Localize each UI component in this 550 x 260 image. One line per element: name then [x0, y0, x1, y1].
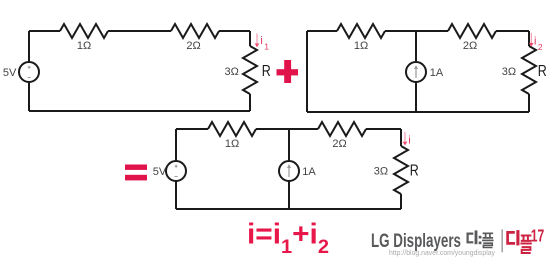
wire circuit1 right lower [249, 94, 251, 111]
resistor R 3ohm circuit1 [243, 46, 257, 94]
logo dipeul17 red hangul peul [520, 236, 531, 254]
I1 arrow inside [414, 65, 418, 78]
resistor 1ohm circuit3 [208, 122, 256, 136]
svg-text:2Ω: 2Ω [463, 40, 477, 52]
wire circuit1 top-right segment [219, 30, 250, 32]
wire circuit3 bottom [176, 208, 401, 210]
svg-text:2Ω: 2Ω [332, 138, 346, 150]
current source I1 1A circuit2 [406, 62, 426, 82]
I2 arrow inside [287, 164, 291, 177]
wire circuit2 left [306, 31, 308, 112]
svg-text:3Ω: 3Ω [224, 66, 238, 78]
wire circuit3 right upper [400, 129, 402, 146]
voltage source V1 5V circuit1 [19, 62, 39, 82]
wire circuit1 left lower [28, 82, 30, 111]
logo separator bar [502, 229, 503, 252]
wire circuit3 top seg c [366, 128, 401, 130]
resistor 2ohm circuit1 [171, 24, 219, 38]
resistor R 3ohm circuit3 [394, 146, 408, 194]
svg-text:2Ω: 2Ω [186, 40, 200, 52]
logo colon gray [479, 236, 482, 244]
svg-text:3Ω: 3Ω [374, 166, 388, 178]
resistor 1ohm circuit1 [60, 24, 108, 38]
wire circuit1 top-left segment [29, 30, 60, 32]
wire circuit1 top-mid segment [108, 30, 171, 32]
wire circuit2 right upper [528, 31, 530, 46]
svg-text:1Ω: 1Ω [77, 40, 91, 52]
wire circuit1 bottom [29, 110, 250, 112]
current source I2 1A circuit3 [279, 161, 299, 181]
voltage source V2 5V circuit3 [166, 161, 186, 181]
svg-text:R: R [262, 63, 271, 80]
svg-text:i=i1+i2: i=i1+i2 [247, 219, 329, 259]
resistor 1ohm circuit2 [337, 24, 385, 38]
resistor R 3ohm circuit2 [522, 46, 536, 94]
wire circuit3 top seg a [176, 128, 208, 130]
wire circuit2 middle upper [415, 31, 417, 62]
wire circuit2 bottom [307, 111, 529, 113]
resistor 2ohm circuit2 [448, 24, 496, 38]
equals symbol red [125, 165, 147, 181]
current arrow i circuit3 [403, 132, 408, 146]
logo hangul peul gray [482, 233, 494, 247]
svg-text:R: R [410, 163, 419, 180]
V2 polarity marks [175, 165, 178, 177]
wire circuit3 middle lower [288, 181, 290, 209]
wire circuit3 left lower [175, 181, 177, 209]
wire circuit2 top seg c [496, 30, 529, 32]
wire circuit3 top seg b [256, 128, 318, 130]
svg-text:i: i [408, 135, 410, 147]
wire circuit2 middle lower [415, 82, 417, 112]
svg-text:5V: 5V [3, 67, 17, 79]
wire circuit2 top seg a [307, 30, 337, 32]
logo dipeul17 red hangul di [508, 230, 518, 245]
wire circuit2 top seg b [385, 30, 448, 32]
wire circuit1 left upper [28, 31, 30, 62]
svg-text:2: 2 [538, 42, 543, 52]
wire circuit2 right lower [528, 94, 530, 112]
svg-text:17: 17 [531, 226, 545, 246]
svg-text:1A: 1A [430, 67, 444, 79]
wire circuit1 right upper [249, 31, 251, 46]
V1 polarity marks [28, 66, 31, 78]
svg-text:i: i [534, 35, 536, 47]
svg-text:1Ω: 1Ω [354, 40, 368, 52]
wire circuit3 right lower [400, 194, 402, 209]
svg-text:http://blog.naver.com/youngdis: http://blog.naver.com/youngdisplay [389, 248, 495, 257]
wire circuit3 left upper [175, 129, 177, 161]
svg-text:1A: 1A [302, 166, 316, 178]
svg-text:1: 1 [264, 41, 269, 51]
current arrow i1 [255, 34, 260, 48]
current arrow i2 [529, 33, 534, 47]
svg-text:i: i [260, 35, 262, 47]
svg-text:1Ω: 1Ω [225, 138, 239, 150]
svg-text:5V: 5V [153, 166, 167, 178]
plus symbol red [277, 60, 299, 83]
logo hangul di gray [468, 230, 476, 244]
wire circuit3 middle upper [288, 129, 290, 161]
svg-text:3Ω: 3Ω [502, 66, 516, 78]
svg-text:R: R [538, 63, 547, 80]
resistor 2ohm circuit3 [318, 122, 366, 136]
